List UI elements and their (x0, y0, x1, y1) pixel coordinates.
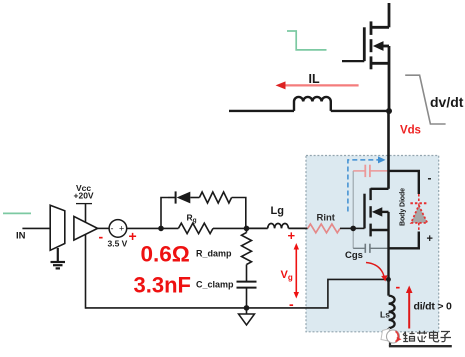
svg-text:Body Diode: Body Diode (400, 188, 407, 226)
wire buffer output to source (98, 227, 109, 229)
svg-text:dv/dt: dv/dt (430, 94, 464, 110)
diode D1 (turn-off) (168, 191, 199, 203)
resistor R_damp (242, 233, 252, 265)
Vcc label (74, 183, 94, 204)
gate wire Q1 (342, 60, 364, 62)
wire turn-off branch to node B (232, 198, 246, 229)
svg-text:+: + (288, 228, 296, 243)
svg-text:0.6Ω: 0.6Ω (141, 242, 190, 267)
bottom return rail wire (86, 279, 389, 308)
body diode branch wires (389, 171, 419, 248)
main switch-node wire (229, 110, 389, 112)
inductor L1 (load) (294, 97, 331, 111)
di/dt arrow (red) (406, 286, 413, 329)
svg-text:Rint: Rint (317, 213, 336, 224)
svg-text:Lg: Lg (271, 205, 284, 217)
dv/dt waveform (gray) (405, 75, 445, 124)
wire IN to driver (22, 227, 50, 229)
internal gate net (gray) (352, 171, 354, 248)
svg-text:-: - (111, 224, 114, 234)
gate waveform (green step) (287, 31, 327, 50)
svg-text:R_damp: R_damp (196, 249, 232, 259)
svg-text:di/dt > 0: di/dt > 0 (414, 300, 453, 312)
wire R_damp to C_clamp (246, 228, 248, 232)
resistor R1 (turn-off branch) (199, 192, 231, 203)
MOSFET Q2 (inside box) (353, 188, 388, 236)
Q2 arrow (body) (372, 207, 383, 216)
svg-text:IN: IN (16, 231, 26, 242)
capacitor C_clamp (237, 282, 257, 288)
Vg annotation (+ arrow -) (281, 228, 300, 312)
polarity and value labels of V1 (99, 228, 137, 249)
body diode D2 (red dashed, gray fill) (410, 194, 428, 232)
svg-text:C_clamp: C_clamp (196, 280, 234, 290)
node C (clamp ground junction) (244, 305, 250, 311)
node D (gate node) (350, 226, 356, 232)
svg-text:3.3nF: 3.3nF (134, 272, 191, 297)
svg-text:+: + (129, 228, 137, 244)
svg-text:-: - (396, 279, 401, 295)
watermark text (stylized) (403, 331, 451, 342)
input signal waveform (green) (3, 212, 31, 214)
ground (hollow triangle) (239, 308, 255, 325)
node A (158, 226, 164, 232)
gate charge path (red curved arrow) (366, 263, 388, 282)
wire Ls to bottom (387, 328, 389, 341)
capacitor Cgd (salmon) (353, 165, 388, 177)
driver stage U1 (trapezoid) (50, 205, 65, 250)
node B (244, 226, 250, 232)
capacitor Cgs (gray) (353, 244, 388, 253)
buffer U2 (triangle) (74, 216, 98, 240)
ground (driver) (51, 248, 66, 268)
snubber region box (light blue dashed) (306, 156, 439, 332)
svg-text:Ls: Ls (380, 309, 390, 319)
resistor Rint (red) (308, 224, 340, 233)
voltage source V1 (3.5V offset) (109, 220, 127, 238)
inductor Ls (389, 296, 395, 328)
svg-text:+20V: +20V (74, 191, 94, 201)
resistor Rg (161, 223, 247, 233)
Miller path (blue dashed arrow) (348, 160, 379, 212)
Q1 arrow (body) (373, 41, 384, 51)
svg-text:-: - (428, 171, 432, 185)
wire Vcc through buffer to bottom rail (85, 204, 87, 309)
svg-text:+: + (427, 233, 433, 245)
svg-text:+: + (119, 224, 124, 234)
inductor Lg (247, 224, 308, 229)
watermark bracket (389, 333, 452, 346)
svg-text:Vds: Vds (400, 125, 421, 137)
wire C_clamp to ground rail (246, 288, 248, 308)
MOSFET Q1 (top) (364, 3, 389, 111)
svg-text:Cgs: Cgs (345, 250, 363, 261)
svg-text:3.5 V: 3.5 V (108, 239, 128, 249)
wire Rint to gate node (340, 227, 353, 229)
kelvin source node (386, 277, 391, 282)
main drain wire (top junction into box) (387, 111, 390, 189)
watermark logo (381, 329, 402, 344)
switch node junction (386, 108, 392, 114)
wire node A up to turn-off branch (161, 198, 168, 229)
svg-text:IL: IL (309, 72, 320, 86)
source wire Q2 down to kelvin node (387, 230, 389, 296)
svg-text:-: - (99, 229, 104, 245)
svg-text:-: - (289, 296, 294, 312)
wire V1 to node A (127, 227, 161, 229)
IL arrow (red) (276, 81, 359, 89)
